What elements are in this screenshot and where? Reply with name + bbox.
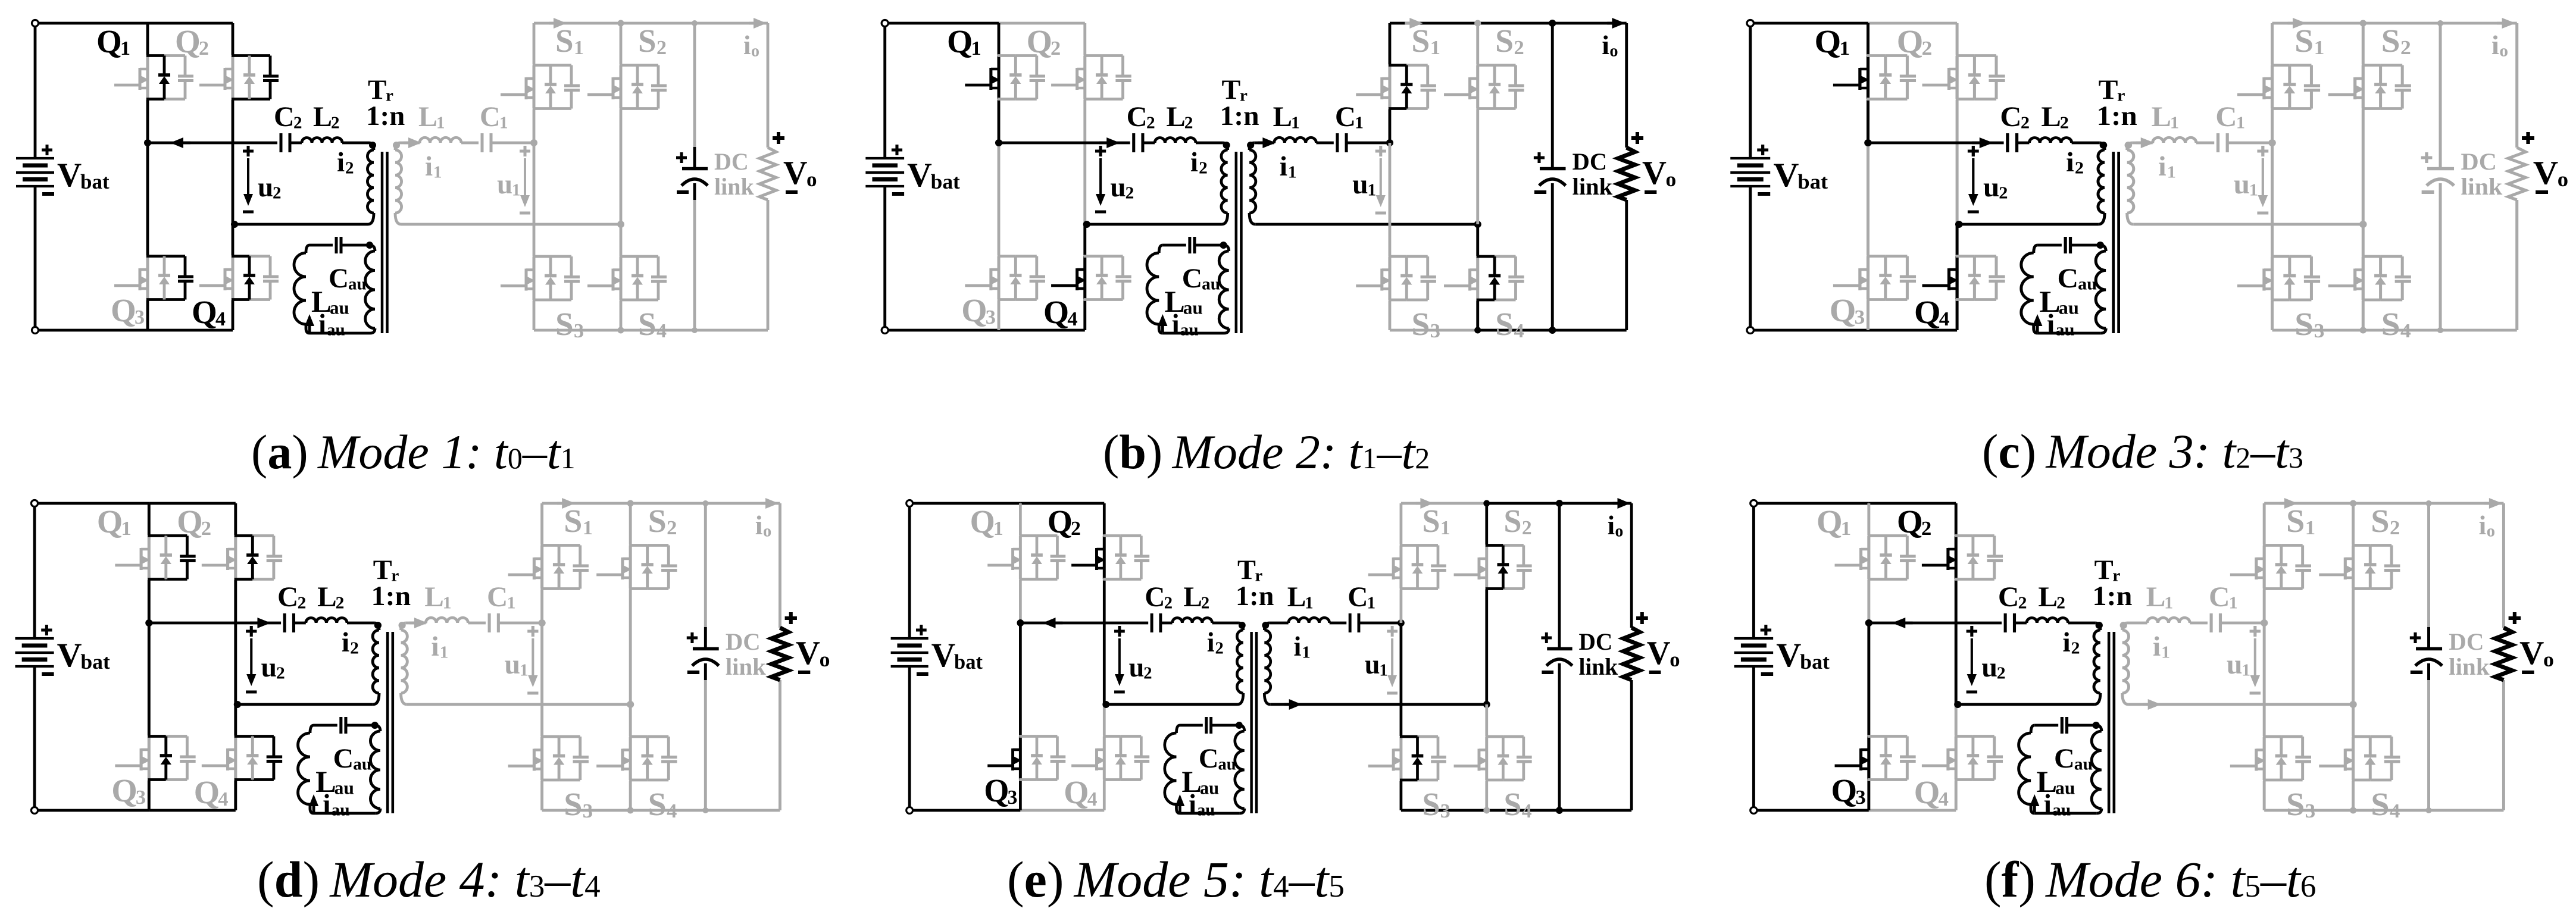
svg-text:au: au bbox=[1200, 778, 1219, 798]
svg-text:2: 2 bbox=[2071, 639, 2080, 658]
svg-text:1: 1 bbox=[2228, 594, 2237, 613]
svg-text:i: i bbox=[2062, 627, 2070, 657]
svg-text:2: 2 bbox=[1201, 593, 1209, 612]
svg-text:L: L bbox=[418, 101, 437, 133]
svg-text:L: L bbox=[1287, 582, 1306, 613]
svg-text:i: i bbox=[2152, 631, 2160, 662]
svg-text:V: V bbox=[57, 156, 82, 194]
svg-text:1: 1 bbox=[120, 37, 130, 59]
svg-text:S: S bbox=[638, 23, 656, 59]
svg-text:u: u bbox=[261, 652, 277, 683]
svg-text:au: au bbox=[1180, 321, 1199, 340]
svg-text:Q: Q bbox=[1043, 294, 1069, 330]
svg-text:u: u bbox=[258, 172, 273, 203]
svg-text:i: i bbox=[337, 147, 345, 178]
svg-text:2: 2 bbox=[345, 158, 354, 177]
svg-text:o: o bbox=[1670, 648, 1680, 671]
svg-text:1: 1 bbox=[507, 594, 515, 613]
svg-text:2: 2 bbox=[2018, 594, 2027, 613]
svg-text:au: au bbox=[1183, 297, 1203, 318]
svg-text:au: au bbox=[330, 297, 349, 318]
svg-text:1:n: 1:n bbox=[2097, 101, 2138, 131]
svg-text:2: 2 bbox=[2075, 159, 2084, 177]
svg-text:S: S bbox=[2371, 503, 2389, 540]
svg-text:o: o bbox=[1666, 168, 1677, 191]
svg-text:i: i bbox=[2158, 151, 2167, 182]
svg-text:1: 1 bbox=[2242, 661, 2250, 680]
svg-text:L: L bbox=[424, 581, 444, 613]
svg-text:L: L bbox=[317, 581, 337, 613]
svg-text:Q: Q bbox=[1064, 774, 1089, 810]
svg-text:u: u bbox=[2226, 649, 2242, 679]
svg-text:u: u bbox=[2234, 169, 2250, 200]
svg-text:2: 2 bbox=[2400, 36, 2411, 59]
svg-text:2: 2 bbox=[335, 594, 344, 613]
svg-text:au: au bbox=[2055, 778, 2075, 798]
svg-text:V: V bbox=[57, 637, 82, 673]
svg-text:o: o bbox=[819, 648, 830, 671]
svg-text:1: 1 bbox=[121, 517, 131, 540]
svg-text:1: 1 bbox=[2236, 114, 2245, 132]
svg-text:S: S bbox=[1503, 786, 1521, 822]
svg-text:bat: bat bbox=[954, 650, 983, 673]
svg-text:S: S bbox=[2286, 503, 2305, 540]
svg-text:1: 1 bbox=[1291, 114, 1300, 133]
svg-text:au: au bbox=[353, 755, 371, 774]
svg-text:3: 3 bbox=[136, 786, 146, 809]
svg-text:3: 3 bbox=[1855, 786, 1865, 809]
svg-text:au: au bbox=[331, 801, 349, 820]
svg-text:1: 1 bbox=[1440, 517, 1450, 539]
svg-text:1: 1 bbox=[2170, 114, 2179, 132]
svg-text:u: u bbox=[504, 649, 520, 680]
svg-text:i: i bbox=[318, 309, 326, 340]
svg-text:bat: bat bbox=[80, 170, 110, 193]
svg-text:L: L bbox=[2038, 581, 2058, 613]
svg-text:3: 3 bbox=[2305, 800, 2315, 822]
svg-text:DC: DC bbox=[2461, 149, 2497, 175]
svg-text:DC: DC bbox=[1573, 148, 1607, 175]
svg-text:1: 1 bbox=[971, 37, 981, 59]
svg-text:S: S bbox=[648, 503, 666, 539]
svg-text:L: L bbox=[1183, 582, 1202, 613]
svg-text:V: V bbox=[907, 156, 932, 194]
svg-text:4: 4 bbox=[2400, 319, 2411, 342]
svg-text:2: 2 bbox=[656, 37, 667, 59]
svg-text:1: 1 bbox=[2167, 163, 2176, 181]
svg-text:1:n: 1:n bbox=[371, 581, 410, 612]
svg-text:link: link bbox=[714, 173, 754, 200]
svg-text:au: au bbox=[1197, 800, 1215, 819]
svg-text:3: 3 bbox=[986, 306, 996, 328]
svg-text:o: o bbox=[751, 42, 759, 60]
svg-text:C: C bbox=[274, 101, 295, 133]
svg-text:C: C bbox=[1182, 263, 1202, 294]
svg-text:o: o bbox=[763, 522, 771, 541]
svg-text:i: i bbox=[755, 510, 762, 540]
svg-text:link: link bbox=[2461, 174, 2503, 200]
svg-text:2: 2 bbox=[1146, 114, 1155, 133]
svg-text:2: 2 bbox=[1143, 663, 1152, 682]
svg-text:au: au bbox=[334, 778, 354, 798]
svg-text:3: 3 bbox=[1008, 787, 1018, 809]
svg-text:Q: Q bbox=[1914, 775, 1940, 811]
svg-text:1: 1 bbox=[1367, 593, 1375, 612]
svg-text:1: 1 bbox=[2314, 36, 2325, 59]
svg-text:4: 4 bbox=[1068, 308, 1078, 330]
svg-text:au: au bbox=[1218, 754, 1236, 773]
svg-text:Q: Q bbox=[947, 23, 973, 59]
svg-text:C: C bbox=[1127, 101, 1148, 133]
svg-text:V: V bbox=[1776, 637, 1801, 674]
svg-text:1: 1 bbox=[1430, 37, 1440, 59]
svg-text:2: 2 bbox=[1126, 184, 1134, 203]
svg-text:1: 1 bbox=[436, 113, 445, 132]
svg-text:1: 1 bbox=[582, 516, 592, 539]
svg-text:S: S bbox=[1412, 23, 1430, 59]
svg-text:S: S bbox=[1495, 306, 1514, 342]
svg-text:i: i bbox=[1602, 30, 1610, 60]
svg-text:C: C bbox=[277, 581, 298, 613]
svg-text:3: 3 bbox=[1855, 306, 1865, 328]
svg-text:link: link bbox=[1578, 654, 1618, 680]
svg-text:1: 1 bbox=[1840, 517, 1850, 540]
svg-text:bat: bat bbox=[1798, 170, 1828, 193]
svg-text:L: L bbox=[2042, 101, 2061, 133]
svg-text:V: V bbox=[1642, 155, 1667, 192]
svg-text:S: S bbox=[1503, 503, 1521, 539]
svg-text:i: i bbox=[1207, 627, 1215, 658]
svg-text:i: i bbox=[425, 151, 433, 182]
svg-text:2: 2 bbox=[667, 516, 677, 539]
svg-text:DC: DC bbox=[2449, 628, 2484, 654]
svg-text:1: 1 bbox=[439, 643, 448, 662]
svg-text:u: u bbox=[1352, 169, 1368, 200]
svg-text:u: u bbox=[497, 169, 512, 200]
svg-text:2: 2 bbox=[201, 517, 211, 540]
svg-text:DC: DC bbox=[714, 148, 749, 175]
svg-text:C: C bbox=[329, 263, 349, 294]
svg-text:L: L bbox=[1273, 101, 1292, 133]
svg-text:Q: Q bbox=[1831, 773, 1857, 809]
svg-text:Q: Q bbox=[97, 504, 123, 540]
svg-text:o: o bbox=[1615, 522, 1623, 540]
svg-text:au: au bbox=[348, 274, 367, 293]
svg-text:4: 4 bbox=[2390, 800, 2400, 822]
svg-text:au: au bbox=[327, 320, 345, 339]
svg-text:3: 3 bbox=[1430, 320, 1440, 342]
svg-text:S: S bbox=[2286, 787, 2305, 823]
svg-text:C: C bbox=[487, 581, 508, 613]
svg-text:Q: Q bbox=[1830, 293, 1856, 329]
svg-text:1: 1 bbox=[1288, 163, 1297, 182]
svg-text:V: V bbox=[2519, 635, 2544, 672]
svg-text:4: 4 bbox=[218, 788, 228, 810]
svg-text:S: S bbox=[1422, 786, 1440, 822]
svg-text:4: 4 bbox=[667, 800, 677, 822]
svg-text:i: i bbox=[342, 627, 349, 658]
svg-text:2: 2 bbox=[350, 639, 359, 658]
svg-text:bat: bat bbox=[80, 650, 110, 673]
svg-text:Q: Q bbox=[111, 292, 136, 328]
svg-text:i: i bbox=[2047, 309, 2055, 340]
svg-text:S: S bbox=[555, 23, 574, 59]
svg-text:au: au bbox=[2074, 755, 2092, 774]
svg-text:1:n: 1:n bbox=[2092, 581, 2132, 611]
svg-text:o: o bbox=[1610, 42, 1618, 61]
svg-text:1: 1 bbox=[2164, 594, 2173, 613]
svg-text:V: V bbox=[931, 637, 955, 674]
svg-text:V: V bbox=[796, 635, 820, 671]
svg-text:Q: Q bbox=[1815, 24, 1842, 60]
svg-text:link: link bbox=[1573, 173, 1613, 200]
svg-text:Q: Q bbox=[175, 23, 201, 59]
svg-text:o: o bbox=[806, 168, 817, 191]
svg-text:Q: Q bbox=[193, 775, 220, 810]
svg-text:C: C bbox=[1199, 743, 1218, 774]
svg-text:Q: Q bbox=[192, 294, 217, 330]
svg-text:C: C bbox=[480, 101, 501, 133]
svg-text:1: 1 bbox=[1355, 114, 1364, 133]
svg-text:2: 2 bbox=[2060, 114, 2069, 132]
svg-text:2: 2 bbox=[331, 113, 340, 132]
svg-text:2: 2 bbox=[1071, 518, 1081, 540]
svg-text:4: 4 bbox=[1522, 800, 1532, 822]
svg-text:4: 4 bbox=[1938, 788, 1948, 810]
svg-text:u: u bbox=[1365, 649, 1380, 680]
svg-text:V: V bbox=[1774, 156, 1799, 194]
svg-text:1:n: 1:n bbox=[366, 101, 405, 131]
svg-text:S: S bbox=[564, 787, 582, 822]
svg-text:1: 1 bbox=[512, 180, 521, 199]
svg-text:bat: bat bbox=[931, 170, 960, 193]
svg-text:V: V bbox=[783, 155, 807, 192]
svg-text:DC: DC bbox=[1578, 629, 1612, 655]
svg-text:Q: Q bbox=[1914, 295, 1941, 331]
svg-text:1: 1 bbox=[442, 594, 451, 613]
svg-text:C: C bbox=[2058, 263, 2079, 294]
svg-text:Q: Q bbox=[1897, 504, 1923, 540]
svg-text:S: S bbox=[555, 306, 574, 342]
svg-text:i: i bbox=[2043, 789, 2051, 819]
svg-text:1: 1 bbox=[574, 37, 584, 59]
svg-text:3: 3 bbox=[574, 320, 584, 342]
svg-text:S: S bbox=[2294, 23, 2314, 59]
svg-text:2: 2 bbox=[1921, 517, 1931, 540]
svg-text:i: i bbox=[1190, 147, 1198, 178]
svg-text:2: 2 bbox=[1522, 517, 1532, 539]
svg-text:o: o bbox=[2486, 522, 2494, 541]
svg-text:S: S bbox=[1422, 503, 1440, 539]
svg-text:link: link bbox=[726, 653, 766, 680]
svg-text:S: S bbox=[648, 787, 666, 822]
svg-text:i: i bbox=[2478, 510, 2486, 540]
svg-text:L: L bbox=[1167, 101, 1186, 133]
svg-text:2: 2 bbox=[199, 37, 209, 59]
svg-text:i: i bbox=[1189, 789, 1196, 820]
svg-text:Q: Q bbox=[1816, 504, 1842, 540]
svg-text:S: S bbox=[564, 503, 582, 539]
svg-text:2: 2 bbox=[1164, 593, 1173, 612]
svg-text:link: link bbox=[2449, 653, 2490, 679]
svg-text:C: C bbox=[2216, 101, 2237, 133]
svg-text:2: 2 bbox=[1051, 37, 1061, 59]
svg-text:Q: Q bbox=[1897, 24, 1924, 60]
svg-text:C: C bbox=[1348, 582, 1368, 613]
svg-text:2: 2 bbox=[297, 594, 306, 613]
svg-text:Q: Q bbox=[1048, 503, 1073, 540]
svg-text:C: C bbox=[2054, 743, 2075, 773]
svg-text:o: o bbox=[2500, 42, 2509, 60]
svg-text:bat: bat bbox=[1800, 650, 1830, 674]
svg-text:C: C bbox=[1335, 101, 1356, 133]
svg-text:1: 1 bbox=[993, 518, 1003, 540]
svg-text:i: i bbox=[1172, 309, 1180, 340]
svg-text:1: 1 bbox=[2249, 181, 2258, 199]
svg-text:au: au bbox=[2056, 321, 2075, 339]
svg-text:3: 3 bbox=[1440, 800, 1450, 822]
svg-text:2: 2 bbox=[2021, 114, 2030, 132]
svg-text:au: au bbox=[2059, 297, 2079, 318]
svg-text:2: 2 bbox=[1514, 37, 1524, 59]
svg-text:au: au bbox=[2052, 801, 2071, 820]
svg-text:1: 1 bbox=[1379, 660, 1387, 679]
svg-text:C: C bbox=[1997, 581, 2018, 613]
svg-text:4: 4 bbox=[1514, 320, 1524, 342]
svg-text:S: S bbox=[2381, 23, 2400, 59]
svg-text:u: u bbox=[1129, 652, 1145, 683]
svg-text:4: 4 bbox=[1939, 308, 1950, 330]
svg-text:i: i bbox=[323, 789, 330, 820]
svg-text:1: 1 bbox=[520, 661, 529, 680]
svg-text:1: 1 bbox=[1368, 181, 1377, 200]
svg-text:Q: Q bbox=[96, 23, 122, 59]
svg-text:Q: Q bbox=[984, 772, 1009, 809]
svg-text:i: i bbox=[743, 30, 751, 60]
svg-text:C: C bbox=[333, 743, 354, 774]
svg-text:L: L bbox=[2152, 101, 2171, 133]
svg-text:1: 1 bbox=[2161, 643, 2170, 662]
svg-text:1: 1 bbox=[2305, 516, 2315, 539]
svg-text:4: 4 bbox=[215, 308, 226, 330]
svg-text:4: 4 bbox=[1087, 788, 1098, 810]
svg-text:V: V bbox=[1647, 635, 1671, 672]
svg-text:1:n: 1:n bbox=[1236, 581, 1274, 612]
svg-text:2: 2 bbox=[293, 113, 302, 132]
svg-text:2: 2 bbox=[276, 664, 285, 683]
svg-text:u: u bbox=[1981, 652, 1997, 682]
svg-text:au: au bbox=[2078, 275, 2097, 293]
svg-text:u: u bbox=[1983, 172, 1999, 203]
svg-text:Q: Q bbox=[1027, 23, 1052, 59]
svg-text:L: L bbox=[2146, 581, 2165, 613]
svg-text:1: 1 bbox=[499, 113, 508, 132]
svg-text:3: 3 bbox=[2314, 319, 2325, 342]
svg-text:4: 4 bbox=[656, 320, 667, 342]
svg-text:Q: Q bbox=[962, 292, 987, 328]
svg-text:1: 1 bbox=[433, 162, 442, 181]
svg-text:Q: Q bbox=[970, 503, 995, 540]
svg-text:i: i bbox=[431, 631, 439, 662]
svg-text:S: S bbox=[1495, 23, 1514, 59]
svg-text:1: 1 bbox=[1305, 593, 1313, 612]
svg-text:3: 3 bbox=[135, 306, 145, 328]
svg-text:S: S bbox=[2371, 787, 2389, 823]
svg-text:1:n: 1:n bbox=[1220, 101, 1259, 131]
svg-text:2: 2 bbox=[1184, 114, 1193, 133]
svg-text:Q: Q bbox=[177, 504, 203, 540]
svg-text:C: C bbox=[2000, 101, 2022, 133]
svg-text:1: 1 bbox=[1840, 37, 1850, 59]
svg-text:C: C bbox=[1145, 582, 1165, 613]
svg-text:3: 3 bbox=[582, 800, 592, 822]
svg-text:2: 2 bbox=[1215, 638, 1223, 657]
svg-text:V: V bbox=[2533, 155, 2558, 192]
svg-text:i: i bbox=[1280, 151, 1287, 182]
svg-text:Q: Q bbox=[111, 773, 137, 809]
svg-text:S: S bbox=[2294, 306, 2314, 343]
svg-text:o: o bbox=[2543, 648, 2554, 672]
svg-text:2: 2 bbox=[2056, 594, 2065, 613]
svg-text:S: S bbox=[2381, 306, 2400, 343]
svg-text:DC: DC bbox=[726, 628, 761, 655]
svg-text:2: 2 bbox=[1996, 664, 2005, 683]
svg-text:S: S bbox=[638, 306, 656, 342]
svg-text:2: 2 bbox=[1199, 159, 1208, 178]
svg-text:C: C bbox=[2209, 581, 2230, 613]
svg-text:i: i bbox=[1608, 510, 1615, 540]
svg-text:au: au bbox=[1202, 275, 1220, 294]
svg-text:2: 2 bbox=[2390, 516, 2400, 539]
svg-text:L: L bbox=[313, 101, 332, 133]
svg-text:2: 2 bbox=[1999, 184, 2008, 202]
svg-text:u: u bbox=[1111, 172, 1126, 203]
svg-text:i: i bbox=[2066, 147, 2074, 178]
svg-text:i: i bbox=[2491, 30, 2499, 60]
svg-text:i: i bbox=[1293, 631, 1301, 662]
svg-text:S: S bbox=[1412, 306, 1430, 342]
svg-text:1: 1 bbox=[1302, 643, 1310, 662]
svg-text:2: 2 bbox=[273, 183, 282, 202]
svg-text:o: o bbox=[2558, 168, 2568, 191]
svg-text:2: 2 bbox=[1922, 37, 1933, 59]
